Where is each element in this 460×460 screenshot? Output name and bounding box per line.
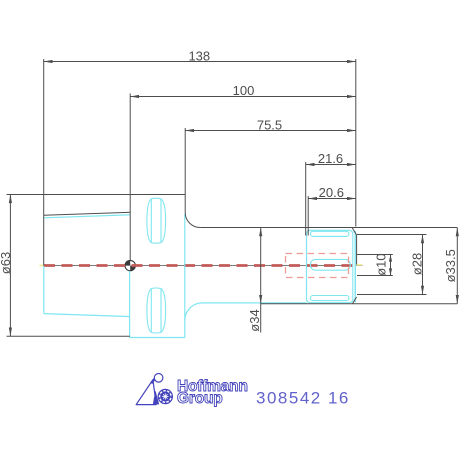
dim 75.5 line bbox=[185, 130, 356, 132]
svg-text:100: 100 bbox=[233, 83, 255, 98]
upper flange slot lens bbox=[147, 198, 166, 243]
black right extension vertical x=355.8 bbox=[355, 59, 357, 227]
dim 21.6 line bbox=[306, 164, 356, 166]
black flange right face / 75.5 extension bbox=[184, 128, 186, 213]
svg-text:138: 138 bbox=[188, 48, 210, 63]
cyan left face bbox=[43, 266, 45, 314]
centerline yellow end left bbox=[40, 265, 44, 267]
red dashed pocket rectangle bbox=[286, 254, 349, 278]
black upper fillet bbox=[185, 213, 200, 228]
right section end band fill bbox=[353, 231, 356, 302]
logo arm bbox=[151, 378, 155, 384]
black top chamfer right end bbox=[352, 228, 356, 235]
black right face upper bbox=[356, 235, 358, 265]
dim dia28 line bbox=[422, 235, 424, 295]
black flange top edge + dia63 extension bbox=[7, 194, 186, 196]
dim dia33.5 line bbox=[456, 228, 458, 304]
svg-text:75.5: 75.5 bbox=[257, 117, 282, 132]
svg-text:ø33.5: ø33.5 bbox=[443, 249, 458, 282]
centerline red dashes bbox=[44, 264, 358, 267]
dim 20.6 line bbox=[308, 198, 356, 200]
logo head bbox=[154, 374, 163, 383]
dim dia28 extensions bbox=[357, 234, 427, 236]
black left face / 138 extension bbox=[43, 59, 45, 265]
right section body rounded rect bbox=[307, 230, 353, 302]
dim dia34 line bbox=[260, 228, 262, 333]
logo small filled triangle bbox=[153, 390, 159, 404]
middle slot capsule bbox=[310, 259, 350, 270]
svg-text:Group: Group bbox=[177, 390, 223, 407]
svg-text:ø34: ø34 bbox=[247, 309, 262, 331]
logo big triangle bbox=[136, 380, 156, 405]
dim 138 line bbox=[44, 61, 356, 63]
black shaft top edge + dia33.5 top extension bbox=[200, 227, 457, 229]
dim dia10 extensions bbox=[357, 254, 393, 256]
cyan flange bottom edge bbox=[130, 337, 185, 339]
logo gear bbox=[158, 389, 172, 403]
center balance dot bbox=[125, 260, 135, 270]
black bottom chamfer right end bbox=[352, 297, 356, 304]
svg-text:ø63: ø63 bbox=[0, 252, 13, 274]
cyan lower fillet flange-to-shaft bbox=[185, 303, 203, 321]
right section extra end edge bbox=[354, 231, 356, 302]
black flange left / 100 extension bbox=[129, 94, 131, 261]
dim 100 line bbox=[130, 96, 356, 98]
centerline yellow end right bbox=[357, 264, 363, 266]
lower flange slot inner lines bbox=[150, 289, 152, 333]
cyan shaft bottom edge bbox=[202, 302, 306, 304]
upper flange slot inner lines bbox=[150, 199, 152, 243]
top slot capsule bbox=[310, 231, 349, 236]
cyan taper top edge bbox=[44, 215, 130, 218]
svg-text:ø28: ø28 bbox=[409, 253, 424, 275]
black shaft bottom edge + dia33.5 bottom extension bbox=[261, 303, 458, 305]
cyan taper bottom edge bbox=[44, 314, 130, 317]
centerline (thin gray axis) bbox=[41, 265, 363, 267]
cyan flange left face bbox=[129, 271, 131, 338]
hoffmann logo icon bbox=[136, 374, 172, 405]
black 21.6 extension vertical bbox=[305, 162, 307, 236]
black taper top edge bbox=[44, 212, 131, 215]
svg-text:ø10: ø10 bbox=[373, 253, 388, 275]
svg-text:308542 16: 308542 16 bbox=[256, 389, 350, 408]
svg-text:21.6: 21.6 bbox=[318, 151, 343, 166]
dim dia10 line bbox=[390, 255, 392, 276]
black 20.6 extension vertical bbox=[307, 196, 309, 236]
black dia63 bottom extension bbox=[7, 335, 130, 337]
svg-text:20.6: 20.6 bbox=[319, 185, 344, 200]
bottom slot capsule bbox=[310, 296, 349, 301]
dim dia63 line bbox=[9, 194, 11, 336]
cyan flange right face bbox=[184, 214, 186, 338]
lower flange slot lens bbox=[147, 288, 166, 333]
